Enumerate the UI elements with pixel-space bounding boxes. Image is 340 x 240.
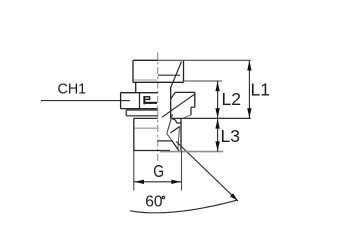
arrow L1 down bbox=[247, 108, 251, 118]
shoulder line / L1 L2 bottom extension bbox=[134, 117, 158, 119]
centerline bbox=[157, 53, 159, 164]
L1 top extension line bbox=[158, 59, 251, 61]
top stud outline bbox=[133, 60, 184, 82]
washer bottom edge bbox=[126, 115, 158, 117]
dimension line L2 L3 bbox=[217, 81, 219, 152]
hex section top edge right bbox=[175, 91, 195, 93]
cone seat top line bbox=[158, 140, 173, 142]
svg-text:L3: L3 bbox=[221, 126, 240, 146]
top stud thread root line bbox=[134, 79, 158, 81]
neck right section edge bbox=[170, 87, 172, 118]
thread profile mark (P detail) bbox=[144, 96, 157, 104]
hex section step bbox=[191, 106, 195, 108]
dimension line L1 bbox=[248, 60, 250, 118]
CH1 leader line bbox=[41, 100, 130, 102]
hex section chamfer small bbox=[171, 92, 175, 99]
lower stud thread runout line bbox=[134, 127, 157, 129]
60 degree flank leader line bbox=[176, 142, 238, 202]
hex section chamfer long diagonal bbox=[162, 94, 195, 117]
hex section lower right edge bbox=[190, 107, 192, 115]
G right extension line bbox=[181, 151, 183, 191]
lower stud right edge bbox=[180, 119, 182, 151]
60 degree arc bbox=[130, 200, 237, 213]
hex section lower chamfer bbox=[184, 115, 191, 118]
G dimension line bbox=[134, 181, 182, 183]
arrow G left bbox=[134, 180, 144, 184]
washer top edge bbox=[126, 109, 158, 111]
svg-text:CH1: CH1 bbox=[58, 82, 87, 98]
lower stud top edge right bbox=[177, 122, 182, 124]
neck left edge bbox=[135, 82, 137, 92]
svg-text:L1: L1 bbox=[251, 80, 270, 100]
bore taper to cone bbox=[167, 134, 172, 141]
cone seat flank bbox=[172, 141, 179, 152]
svg-text:G: G bbox=[153, 163, 164, 182]
arrow L1 up bbox=[247, 61, 251, 71]
hex nut CH1 side view bbox=[121, 93, 158, 109]
L2 top extension line bbox=[184, 80, 223, 82]
lower stud thread minor right bbox=[178, 127, 180, 151]
hex section right edge bbox=[194, 92, 196, 107]
hex facet line bbox=[139, 93, 141, 109]
arrow L2 up bbox=[215, 82, 219, 92]
G left extension line bbox=[133, 151, 135, 191]
svg-text:L2: L2 bbox=[222, 89, 241, 109]
lower stud chamfer curve right bbox=[172, 119, 177, 124]
arrow L2 down bbox=[215, 108, 219, 118]
lower stud bottom face bbox=[134, 150, 170, 152]
arrow 60 degree bbox=[230, 193, 238, 201]
arrow G right bbox=[171, 180, 181, 184]
washer left edge bbox=[125, 110, 127, 116]
svg-text:60: 60 bbox=[145, 194, 163, 211]
thread runout slant right bbox=[167, 114, 173, 134]
L3 bottom extension line bbox=[160, 151, 223, 153]
lower stud left edge bbox=[133, 118, 135, 150]
arrow L3 down bbox=[215, 141, 219, 151]
top stud thread runout diagonal bbox=[171, 62, 182, 88]
top stud bore line bbox=[158, 74, 180, 76]
lower stud chamfer diagonal bbox=[170, 127, 179, 134]
shoulder line right / extension to dims bbox=[171, 117, 251, 119]
arrow L3 up bbox=[215, 119, 219, 129]
